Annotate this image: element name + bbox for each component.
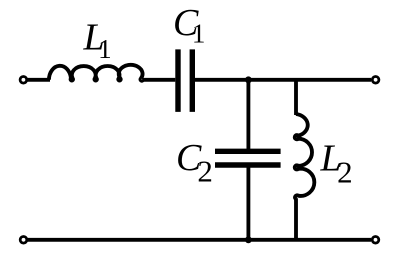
node junction bottom: [245, 236, 252, 243]
capacitor C2 top plate: [215, 149, 281, 154]
wire L2 to bottom rail: [294, 198, 298, 240]
svg-text:C1: C1: [173, 2, 205, 49]
terminal top-right: [372, 77, 379, 84]
inductor L2: [295, 114, 315, 199]
svg-text:L1: L1: [83, 17, 112, 64]
wire top rail down to L2: [294, 80, 298, 115]
terminal bottom-left: [20, 237, 27, 244]
inductor L1: [49, 65, 143, 81]
svg-text:C2: C2: [176, 137, 213, 188]
wire C2 to bottom rail: [246, 165, 250, 240]
svg-text:L2: L2: [320, 137, 353, 189]
wire C1 to top-right terminal: [195, 78, 371, 82]
capacitor C1 left plate: [175, 49, 180, 112]
bottom rail wire: [27, 238, 371, 242]
node junction top: [245, 76, 252, 83]
capacitor C1 right plate: [190, 49, 195, 112]
wire top-left segment: [27, 78, 50, 82]
capacitor C2 bottom plate: [215, 162, 281, 167]
terminal top-left: [20, 77, 27, 84]
wire L1 to C1: [142, 78, 175, 82]
wire junction down to C2: [246, 80, 250, 152]
terminal bottom-right: [372, 237, 379, 244]
